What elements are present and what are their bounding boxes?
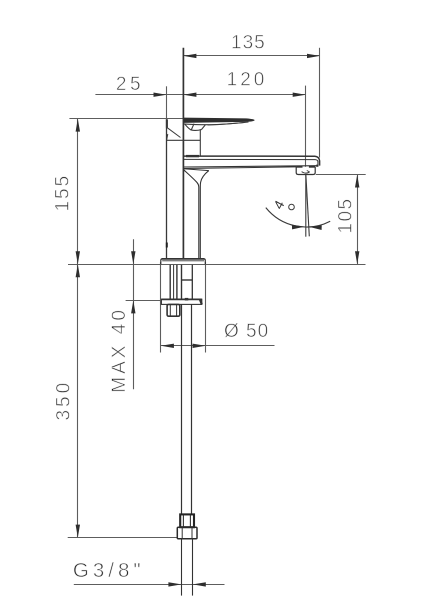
svg-text:MAX 40: MAX 40 bbox=[109, 307, 130, 393]
svg-text:4: 4 bbox=[271, 198, 288, 212]
svg-text:350: 350 bbox=[53, 380, 74, 421]
svg-text:25: 25 bbox=[116, 74, 144, 95]
svg-text:135: 135 bbox=[231, 33, 266, 54]
svg-text:G3/8": G3/8" bbox=[73, 559, 145, 582]
svg-text:Ø 50: Ø 50 bbox=[224, 321, 269, 342]
svg-text:120: 120 bbox=[227, 70, 268, 91]
svg-text:105: 105 bbox=[335, 197, 356, 233]
svg-text:155: 155 bbox=[53, 174, 74, 212]
